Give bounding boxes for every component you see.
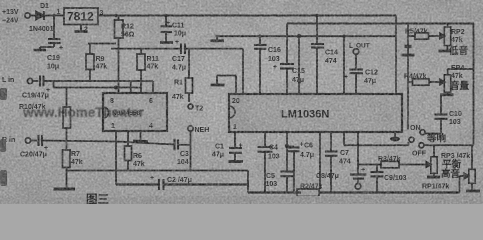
potentiometer RP3 wiper arrow bbox=[426, 162, 431, 167]
wire R3 feed line bbox=[358, 164, 381, 166]
node NEH bbox=[188, 126, 193, 171]
capacitor C1 47u bbox=[229, 132, 242, 160]
node R in terminal bbox=[25, 138, 30, 143]
node junction rail2 bbox=[297, 34, 301, 94]
wire drop to R2 right bbox=[319, 132, 321, 189]
capacitor C20/47u input R bbox=[31, 135, 175, 146]
node L in terminal bbox=[27, 78, 32, 83]
resistor R4/47k bbox=[408, 79, 439, 85]
potentiometer RP1 treble bbox=[469, 145, 475, 190]
wire right vertical bus x408 bbox=[405, 24, 412, 130]
potentiometer RP1 wiper arrow bbox=[460, 173, 469, 178]
capacitor C2/47u bbox=[159, 179, 248, 190]
ground RP3 bbox=[427, 176, 440, 179]
ground op-amp pin4 bbox=[133, 131, 148, 142]
capacitor C15 47u bbox=[280, 64, 294, 94]
watermark bbox=[22, 105, 145, 120]
node L OUT terminal bbox=[353, 49, 359, 70]
ground C1 bbox=[229, 160, 244, 163]
wire input to diode bbox=[30, 15, 36, 17]
capacitor C11 10u bbox=[161, 16, 173, 42]
wire C5 branch riser bbox=[285, 132, 289, 171]
ground RP1 bbox=[466, 190, 480, 193]
resistor R3/47k bbox=[381, 161, 428, 168]
wire switch line y145 bbox=[344, 142, 474, 145]
node switch ON contact bbox=[420, 130, 425, 135]
capacitor C6 4.7u bbox=[288, 147, 300, 193]
capacitor C10 103 bbox=[435, 96, 448, 134]
wire op-amp pin7 stub bbox=[130, 81, 132, 93]
capacitor C9/103 bbox=[371, 165, 384, 193]
capacitor C19 10u bbox=[40, 16, 61, 50]
potentiometer RP2 47k wiper arrow bbox=[439, 33, 445, 38]
wire rail2 drop x344 bbox=[343, 36, 345, 94]
wire bottom bus segment C bbox=[319, 191, 460, 193]
node T2 bbox=[188, 104, 193, 109]
regulator U2 7812 bbox=[64, 8, 98, 25]
wire R input riser to op-amp pin1 and down to bus bbox=[115, 131, 117, 185]
node +13V/-24V input terminal bbox=[25, 13, 30, 18]
wire line1 R9 top bbox=[88, 43, 116, 45]
ground bus x408 bbox=[402, 54, 415, 57]
wire bottom bus segment B bbox=[248, 191, 301, 193]
wire pin20 loop bbox=[217, 76, 236, 95]
capacitor C19/47u input L bbox=[33, 76, 153, 87]
capacitor C14 474 bbox=[311, 16, 324, 95]
wire second input line bbox=[54, 81, 142, 90]
wire feedback line y170 bbox=[67, 170, 249, 172]
wire rail3 bbox=[287, 24, 474, 64]
resistor R7 47k bbox=[63, 150, 71, 188]
node C8 terminal circle bbox=[355, 184, 361, 190]
wire EP4 top to right bus bbox=[448, 68, 474, 70]
wire 7812 pin3 output top rail bbox=[98, 15, 396, 17]
wire ON contact to C10 bbox=[425, 133, 441, 135]
node switch OFF contact bbox=[419, 143, 424, 148]
resistor R1 47k bbox=[186, 49, 193, 102]
ground 7812 pin2 bbox=[75, 25, 88, 32]
potentiometer EP4 47k wiper arrow bbox=[439, 79, 445, 84]
wire L input drop to op-amp pin5 bbox=[152, 81, 154, 93]
scan artifacts left edge bbox=[0, 88, 483, 204]
potentiometer RP3 balance bbox=[431, 145, 437, 176]
wire bottom bus segment A bbox=[116, 183, 158, 185]
wire right edge bus bbox=[473, 24, 475, 146]
ground C11 bbox=[160, 41, 173, 44]
resistor R9 47k bbox=[86, 44, 94, 83]
op-amp U1 NJM4558 bbox=[103, 93, 167, 131]
resistor R6 47k bbox=[125, 131, 132, 171]
ground EP4 bbox=[440, 93, 454, 96]
resistor R2/47k bbox=[297, 189, 319, 197]
capacitor C17 4.7u bbox=[181, 44, 243, 55]
capacitor C7 474 bbox=[325, 132, 338, 193]
resistor R10/47k bbox=[63, 88, 71, 151]
wire line2 supply to C17 bbox=[111, 48, 181, 50]
capacitor C8/47u bbox=[350, 132, 367, 184]
node switch pole bbox=[409, 137, 414, 142]
resistor R11 47k bbox=[137, 49, 145, 93]
ground C19 bbox=[34, 49, 47, 52]
potentiometer RP2 47k bbox=[444, 24, 450, 51]
wire top rail drop x396 bbox=[395, 16, 397, 95]
node rail junction dots bbox=[52, 14, 345, 38]
capacitor C5 103 bbox=[281, 172, 294, 193]
capacitor C4 103 bbox=[258, 132, 273, 193]
wire riser to LM1036 pin19 bbox=[242, 49, 244, 94]
capacitor C12 47u bbox=[350, 70, 364, 95]
wire rail2 ground rail bbox=[216, 35, 397, 37]
ground pin20 loop bbox=[211, 84, 225, 87]
component ferrite pill at pin x395 bbox=[390, 132, 400, 141]
capacitor C3 104 bbox=[175, 139, 191, 151]
wire drop to switch line x344 bbox=[343, 132, 345, 145]
resistor R5/47k bbox=[408, 33, 439, 39]
potentiometer EP4 47k volume bbox=[444, 69, 450, 94]
IC U3 LM1036N bbox=[229, 94, 402, 132]
resistor R12 56ohm bbox=[115, 16, 124, 94]
ground RP2 bbox=[439, 50, 452, 53]
capacitor C16 103 bbox=[254, 36, 267, 94]
ground R7 bbox=[54, 188, 76, 191]
diode D1 1N4001 bbox=[36, 11, 64, 20]
wire bottom bus step bbox=[247, 171, 249, 193]
ground rail2 stub bbox=[211, 36, 225, 41]
